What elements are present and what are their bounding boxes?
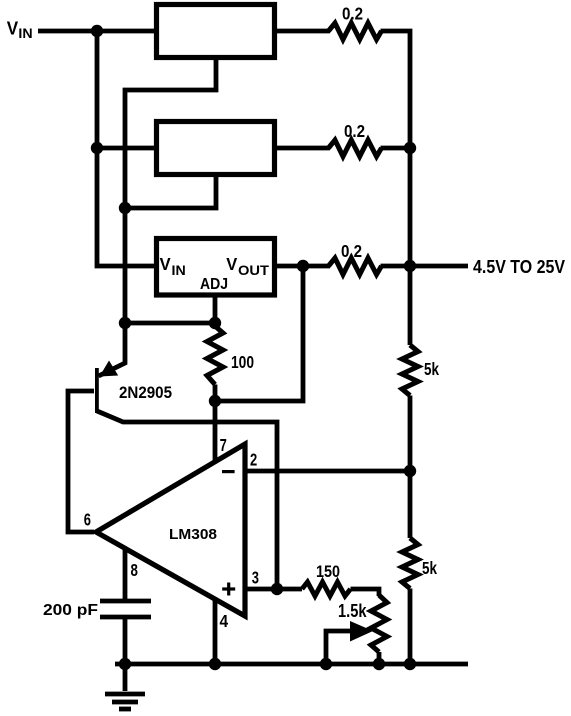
wire R2 to bus [381, 146, 411, 151]
junction dot VIN bus at regulator 2 [91, 142, 103, 154]
label VIN pin of regulator 3 [160, 254, 186, 278]
wire regulator 3 output to sense node [275, 264, 303, 269]
wire R4 bottom stub [213, 385, 218, 402]
svg-text:100: 100 [231, 352, 254, 372]
wire op-amp pin 2 to divider node [246, 469, 410, 474]
junction dot rail at capacitor [119, 658, 131, 670]
svg-text:OUT: OUT [238, 262, 269, 278]
capacitor C1 200 pF top plate [100, 599, 151, 604]
op-amp U1 LM308 triangle [96, 444, 245, 616]
svg-text:1.5k: 1.5k [338, 601, 367, 621]
svg-text:7: 7 [220, 435, 227, 455]
regulator box 2 [157, 122, 275, 175]
resistor R6 5k lower [402, 538, 418, 589]
wire regulator 1 ADJ down-left-down [125, 57, 216, 323]
wire regulator 2 output [275, 146, 330, 151]
junction dot bus row 2 [404, 142, 416, 154]
resistor R1 0.2 [329, 23, 382, 40]
regulator box 3 [157, 239, 275, 296]
wire capacitor to ground rail [123, 617, 128, 664]
plus sign non-inverting input [222, 583, 235, 596]
svg-text:0.2: 0.2 [344, 121, 365, 141]
svg-text:0.2: 0.2 [342, 4, 363, 24]
svg-text:V: V [160, 254, 171, 274]
svg-text:150: 150 [316, 562, 340, 581]
svg-text:8: 8 [131, 560, 139, 580]
potentiometer wiper arrowhead [350, 621, 373, 642]
junction dot bus row 3 [404, 260, 416, 272]
junction dot divider node [404, 465, 416, 477]
wire base to op-amp output pin 6 [68, 391, 94, 532]
wire VIN bus down to regulator 3 input [97, 31, 156, 266]
svg-text:4: 4 [220, 611, 229, 631]
wire VIN lead to regulator 1 [38, 29, 156, 34]
svg-text:IN: IN [18, 26, 32, 41]
transistor Q1 emitter arrowhead [100, 361, 119, 377]
wire op-amp pin 7 [213, 401, 218, 463]
svg-text:2N2905: 2N2905 [119, 384, 172, 402]
svg-text:V: V [7, 19, 18, 39]
wire R1 to bus corner, output bus down [381, 31, 411, 345]
wire sense feedback from R4 bottom up to VOUT node [215, 266, 303, 401]
svg-text:0.2: 0.2 [341, 241, 362, 261]
transistor Q1 emitter lead [99, 323, 126, 376]
potentiometer R8 1.5k body [371, 595, 387, 652]
svg-text:V: V [226, 254, 237, 274]
wire bus between 5k resistors [408, 396, 413, 539]
resistor R7 150 [302, 582, 351, 596]
svg-text:3: 3 [252, 568, 259, 588]
wire regulator 3 ADJ pin [213, 293, 218, 323]
wire ground rail [115, 662, 468, 667]
wire op-amp pin 8 [123, 549, 128, 601]
label VOUT pin of regulator 3 [226, 254, 269, 278]
junction dot at R4 bottom / op-amp pin 7 node [209, 395, 221, 407]
wire pin3 node to R7 [277, 587, 302, 592]
wire op-amp pin 4 to ground rail [213, 599, 218, 664]
svg-text:2: 2 [250, 450, 257, 470]
wire regulator 1 output [275, 29, 330, 34]
net label VIN [7, 19, 33, 41]
regulator box 1 [157, 5, 275, 58]
transistor Q1 2N2905 base bar [95, 368, 99, 413]
transistor Q1 collector lead [97, 411, 277, 589]
svg-text:5k: 5k [422, 558, 437, 578]
wire op-amp pin 3 stub [246, 587, 277, 592]
junction dot rail at wiper [320, 658, 332, 670]
svg-text:6: 6 [84, 510, 91, 530]
wire output stub to label [410, 264, 468, 269]
junction dot rail at pin 4 [209, 658, 221, 670]
svg-text:5k: 5k [424, 359, 439, 379]
capacitor C1 200 pF bottom plate [100, 615, 151, 620]
svg-text:200 pF: 200 pF [43, 602, 98, 619]
resistor R2 0.2 [329, 140, 382, 157]
svg-text:4.5V TO 25V: 4.5V TO 25V [473, 257, 565, 277]
resistor R3 0.2 [329, 258, 382, 275]
wire regulator 2 input [97, 146, 156, 151]
junction dot rail at potentiometer [373, 658, 385, 670]
svg-text:LM308: LM308 [169, 526, 217, 543]
junction dot pin 3 node [271, 583, 283, 595]
wire ADJ rail horizontal [125, 321, 215, 326]
wire regulator 2 ADJ down-left [125, 174, 216, 208]
junction dot rail at bus [404, 658, 416, 670]
wire sense node to R3 [303, 264, 330, 269]
wire bus bottom to ground rail [408, 589, 413, 665]
minus sign inverting input [222, 470, 235, 473]
wire potentiometer wiper [326, 631, 352, 664]
wire potentiometer bottom to ground rail [377, 652, 382, 664]
wire R3 to bus [381, 264, 411, 269]
junction dot VOUT sense node [297, 260, 309, 272]
svg-text:IN: IN [172, 262, 186, 278]
resistor R4 100 [207, 326, 223, 385]
resistor R5 5k upper [402, 345, 418, 396]
junction dot ADJ node at resistor 100 top [209, 317, 221, 329]
junction dot ADJ rail left / emitter node [119, 317, 131, 329]
junction dot VIN bus top [91, 25, 103, 37]
wire R7 to potentiometer top [351, 589, 380, 596]
ground [105, 664, 145, 709]
junction dot ADJ chain at 126,208 [119, 202, 131, 214]
svg-text:ADJ: ADJ [200, 276, 228, 293]
